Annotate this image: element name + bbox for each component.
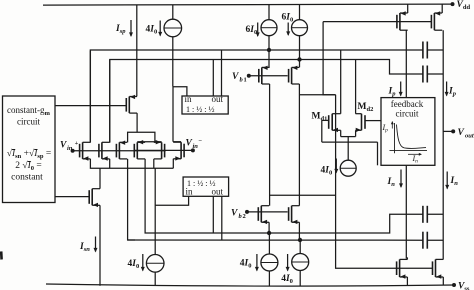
label 4I0 for I7 [281,274,293,285]
arrow I3 current [286,23,290,37]
wire M2 source down [109,159,111,168]
svg-text:in: in [186,187,194,197]
current source I3 6I0 [292,20,308,36]
svg-text:V: V [232,72,239,82]
wire In left [406,165,407,259]
arrow I6 current [255,254,259,272]
label Md1 [312,112,328,123]
wire tail node down [154,168,156,254]
svg-text:circuit: circuit [396,109,419,119]
transistor MC3 [258,206,269,224]
wire I6 bottom [268,271,270,286]
wire Md1 gate [322,120,329,142]
svg-text:1 : ½ : ½: 1 : ½ : ½ [186,105,214,114]
transistor Md2 [356,114,366,132]
wire M5 source down [153,159,155,168]
wire splitter bar [128,132,155,142]
wire Md1 source down [340,130,342,136]
wire Md2 drain from H3 [355,60,357,114]
power terminal Vdd [451,0,471,11]
label Isp [115,24,126,35]
wire ratio2 out1 [212,196,214,233]
wire I4 top [347,142,349,160]
wire MC1 drain down [269,84,271,206]
bias terminal Vb2 [231,209,249,221]
block ratio 2 [183,177,229,197]
wire MP2 source up [441,5,443,14]
wire Vin+ gate line [73,150,166,152]
junction MC3-R1 [267,231,271,235]
wire ratio2 out2 [221,196,223,240]
wire Md2 source down [355,130,357,136]
label 4I0 for I4 [321,166,333,177]
transistor MN2 [433,259,444,278]
wire Isn [99,205,101,285]
transistor M5 input [154,142,165,159]
wire I6 top [268,233,270,254]
block ratio 1 [182,94,228,114]
transistor M4 input [134,142,145,159]
graph label Ip [382,121,394,134]
wire Vb2 gate line [247,211,288,213]
block feedback circuit [381,98,435,166]
label In right [450,176,459,187]
arrow I2 current [256,23,260,38]
wire M6 source down [172,159,174,169]
current source I5 4I0 [146,254,164,272]
wire out gate feed [336,95,433,268]
wire M3 drain down to R2 [128,159,135,240]
transistor MN1 [397,259,408,278]
wire ratio2 in [155,196,188,205]
wire P gate riser [323,22,336,95]
svg-text:out: out [212,187,224,197]
transistor M3 input [116,141,127,159]
wire common source rail [90,159,173,168]
power terminal Vss [452,282,470,290]
transistor M1 input [80,142,91,160]
wire Vdd rail [43,4,451,5]
transistor MP1 [397,11,408,30]
wire Vss rail [46,284,454,286]
wire I2 top [268,5,270,21]
label Ip left [388,87,397,98]
label 4I0 for I6 [240,258,252,269]
wire Ip left [405,30,407,97]
arrow In right current [445,172,449,190]
arrow Ip left current [399,82,403,97]
current source I2 6I0 [261,20,277,36]
wire MC2 drain branch [299,94,335,96]
wire M2 drain to H3 [109,60,111,143]
scan artifact left edge [0,252,3,260]
wire node H2 rail [90,50,423,143]
svg-text:V: V [60,141,67,151]
wire Md tail node [322,142,378,165]
capacitor C1 [423,42,427,59]
wire MP1 source up [407,5,409,14]
label 6I0 for I3 [282,13,294,24]
wire ratio1 out2 [221,50,223,96]
wire T4-T5 source link [137,141,161,143]
wire Md1 drain from H2 [340,50,342,114]
svg-text:1: 1 [244,77,247,84]
label Md2 [358,102,374,113]
wire Vb1 gate line [249,75,288,77]
wire M4 drain down to R1 [145,159,152,233]
wire cascode link [270,194,336,196]
junction H3-I3 [297,57,301,61]
wire I7 bottom [299,271,301,287]
wire Mtail gate [55,196,89,198]
wire I3 top [299,5,301,21]
wire Vin- gate line [134,149,193,151]
transistor MC4 [289,206,300,224]
wire C3 right [427,213,443,215]
wire MC2 drain down [298,84,300,206]
label In left [387,177,396,188]
arrow Isp current [129,20,133,37]
svg-text:circuit: circuit [17,117,40,127]
input terminal Vin- [186,138,203,153]
wire MN2 source down [442,277,444,285]
wire I2 to cascode A [268,36,270,67]
current source I6 4I0 [261,254,278,271]
capacitor C3 [423,206,427,223]
svg-text:+: + [75,140,79,147]
transistor Mtail [89,189,100,207]
output terminal Vout [443,128,474,140]
label 4I0 for I5 [128,259,140,270]
wire Isp [136,5,138,97]
wire I1 bottom [172,37,174,87]
svg-text:V: V [186,139,193,149]
transistor MC2 [289,66,300,84]
wire MC4 source to R2 [298,222,300,240]
wire C2 right [427,73,443,75]
wire node R2 rail [128,239,423,241]
svg-text:V: V [231,209,238,219]
wire Md2 gate [365,120,381,122]
svg-text:constant: constant [11,173,43,183]
svg-text:in: in [67,145,73,152]
svg-text:2 √I0 =: 2 √I0 = [15,160,42,172]
wire MN1 source down [406,277,408,285]
svg-text:V: V [458,128,465,138]
bias terminal Vb1 [232,72,251,84]
wire C4 right [427,239,443,241]
wire I3 to cascode B [299,36,301,67]
wire P pair gate line [323,21,432,23]
wire node H3 rail [110,60,423,143]
wire M6 drain feed [173,87,181,142]
transistor Md1 [329,114,341,132]
transistor MP2 [431,11,442,30]
junction MC4-R2 [298,238,302,242]
graph axes in feedback box [390,123,428,153]
graph label In [408,153,422,165]
wire I5 bottom [154,272,156,285]
wire M0 gate [55,105,126,107]
wire C1 right [427,49,443,51]
wire I7 top [299,240,301,254]
svg-text:out: out [465,133,474,140]
capacitor C2 [423,66,427,83]
transistor M6 input [173,142,184,160]
wire I1 top [172,5,174,20]
current source I1 4I0 [164,19,182,37]
block constant-gm circuit [3,96,56,203]
input terminal Vin+ [60,140,79,153]
arrow Ip right current [445,82,449,97]
svg-text:−: − [198,138,202,145]
label Ip right [448,87,457,98]
wire M0 drain to splitter [136,113,138,132]
arrow I7 current [286,254,290,272]
current source I4 4I0 [340,160,356,176]
transistor M2 input [99,142,110,160]
current source I7 4I0 [292,254,309,271]
junction H2-I2 [267,48,271,52]
arrow I1 current [158,21,162,37]
transistor M0 [126,95,137,113]
svg-text:feedback: feedback [391,99,424,109]
transistor MC1 [259,66,270,84]
arrow I4 current [334,159,338,174]
wire M1 drain to H2 [89,51,91,143]
arrow In left current [399,170,403,189]
svg-text:in: in [185,94,193,104]
label 4I0 for I1 [146,25,158,36]
wire ratio1 in [173,87,187,96]
wire MC3 source to R1 [268,222,270,233]
arrow into T4 source [138,140,143,144]
arrow into T5 source [156,140,161,144]
label 6I0 for I2 [246,25,258,36]
arrow Isn current [94,237,98,253]
svg-text:√Isn +√Isp =: √Isn +√Isp = [7,148,52,160]
svg-text:2: 2 [243,213,246,220]
wire Mtail drain up [99,168,101,188]
wire Md source join [341,137,356,143]
arrow I5 current [141,254,145,272]
label Isn [79,242,90,253]
wire node R1 rail [152,214,423,233]
wire Vout branch top [442,30,444,259]
capacitor C4 [423,232,427,249]
wire ratio1 out1 [212,60,214,97]
